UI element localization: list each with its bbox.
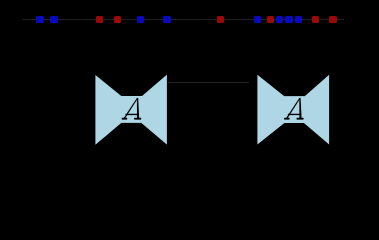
node blue marker 6	[276, 16, 283, 22]
node red marker 4	[267, 16, 274, 22]
label A1	[122, 98, 142, 120]
node red marker 6	[329, 16, 336, 22]
node red marker 3	[217, 16, 224, 22]
autoencoder U2 bowtie	[257, 75, 329, 145]
autoencoder U1 bowtie	[95, 75, 166, 145]
node red marker 5	[312, 16, 319, 22]
node red marker 1	[96, 16, 103, 22]
label A2	[284, 98, 304, 120]
wire: scatter baseline	[22, 19, 343, 21]
node red marker 2	[114, 16, 121, 22]
node blue marker 1	[36, 16, 43, 22]
node blue marker 3	[137, 16, 144, 22]
wire: connector between autoencoders	[168, 82, 249, 83]
node blue marker 4	[163, 16, 170, 22]
node blue marker 8	[295, 16, 302, 22]
node blue marker 5	[254, 16, 261, 22]
node blue marker 2	[50, 16, 57, 22]
node blue marker 7	[285, 16, 292, 22]
